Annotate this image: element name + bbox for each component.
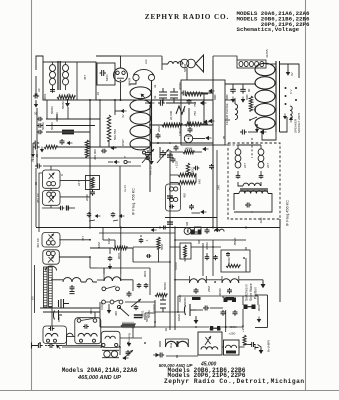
wire y93 to x213	[188, 92, 213, 94]
IF2 trimmer 2	[259, 174, 264, 179]
label speck ab	[127, 352, 131, 356]
models list line 3	[261, 21, 310, 28]
switch circles top	[102, 300, 123, 304]
series cap col b	[167, 196, 173, 198]
svg-text:20M: 20M	[157, 126, 161, 132]
electrolytic cap	[178, 294, 196, 316]
osc loop link	[81, 279, 97, 282]
hairpin resistor 840	[178, 173, 202, 184]
models list line 4	[237, 26, 300, 33]
audio box	[181, 80, 225, 145]
label 105	[31, 155, 35, 160]
svg-text:450: 450	[183, 193, 187, 198]
label OWT	[121, 139, 125, 146]
wire bottom links	[60, 337, 101, 346]
sw coil B	[222, 276, 239, 283]
IF2 primary	[235, 145, 241, 174]
wire P mid links	[170, 247, 203, 259]
svg-text:.1MF: .1MF	[259, 217, 263, 224]
left margin rule	[31, 0, 33, 391]
wire osc bus	[97, 262, 170, 291]
label speck i	[265, 49, 269, 58]
wire V1 bottom bus	[96, 82, 121, 100]
resistor R2	[178, 82, 202, 96]
tuner can B trimmer	[49, 196, 55, 203]
label speck af	[259, 217, 263, 224]
svg-text:6V: 6V	[127, 352, 131, 356]
res vert 300000	[85, 140, 97, 160]
ant cap 2	[48, 343, 55, 348]
cap below y125	[188, 124, 193, 133]
cap I2 2000	[85, 190, 95, 201]
res mid small	[155, 293, 167, 296]
resistor R4	[249, 96, 257, 112]
label speck ah	[157, 126, 161, 132]
svg-text:AF: AF	[37, 88, 41, 92]
svg-text:+125: +125	[175, 161, 179, 168]
field coil core	[279, 61, 281, 132]
ground audio 1	[201, 119, 215, 124]
svg-text:400M: 400M	[227, 257, 231, 265]
wire box1 drops	[47, 99, 101, 148]
svg-text:8MF: 8MF	[225, 94, 229, 100]
cap pair top	[181, 91, 197, 108]
wire y312 left	[43, 308, 100, 312]
wire hairpin left	[170, 175, 178, 183]
wire y247 P	[133, 247, 159, 262]
cap P6	[162, 226, 167, 230]
label speck e	[183, 63, 187, 72]
wire caps to bus	[46, 119, 100, 132]
svg-text:400M: 400M	[218, 288, 222, 296]
svg-text:Position: Position	[254, 287, 258, 299]
label speck a	[96, 91, 100, 96]
bottom right handwritten note	[159, 362, 217, 369]
label P 400	[227, 257, 231, 265]
svg-text:400M: 400M	[183, 254, 187, 262]
ground topright	[286, 64, 291, 76]
cap pair mid	[137, 283, 149, 288]
ant terminal	[32, 343, 37, 349]
cap P2	[146, 254, 151, 258]
svg-text:500M: 500M	[147, 310, 151, 318]
tuner can B	[42, 191, 60, 206]
padder stack 2	[170, 88, 178, 103]
output box right edge	[255, 295, 268, 328]
wire bot can links	[67, 337, 179, 348]
dumbbell resistor 2	[218, 288, 236, 302]
comp I bottom	[195, 227, 202, 234]
label speck j	[41, 122, 45, 130]
bottom right caption models P	[168, 372, 246, 379]
cap C2 left	[33, 88, 41, 99]
svg-text:457: 457	[83, 75, 87, 80]
label 456KC B	[36, 237, 40, 248]
big arrow right	[260, 129, 267, 134]
label speck n	[77, 181, 81, 186]
big cap lower left	[59, 299, 70, 308]
osc coil row A	[63, 278, 81, 283]
big cap left2	[53, 310, 62, 320]
wire top y84	[225, 84, 256, 87]
label 450	[183, 193, 187, 198]
sw big box	[221, 250, 250, 272]
label speck b	[83, 75, 87, 80]
handwritten N mark	[176, 106, 185, 114]
label speck q	[117, 252, 121, 260]
dot P bottom	[127, 311, 197, 344]
svg-text:.05: .05	[222, 135, 226, 140]
wire top O	[178, 296, 258, 305]
wires audio a	[189, 94, 204, 125]
trimmer cap C1	[43, 88, 55, 101]
models list line 2	[236, 16, 310, 23]
cap gnd I2c	[87, 212, 101, 221]
cap y314 a	[221, 310, 226, 316]
IF2 shield dashed	[228, 143, 280, 219]
small gnd arrow ant	[55, 343, 62, 350]
svg-text:IF Freq. 456 KC: IF Freq. 456 KC	[132, 188, 136, 215]
wire x90 down	[89, 100, 91, 180]
gang cap bottom	[123, 350, 133, 359]
res vert P1	[157, 237, 164, 250]
out transformer coil	[201, 347, 218, 350]
label speck y	[114, 311, 118, 316]
label speck x	[147, 310, 151, 318]
bottom left caption models	[62, 367, 138, 374]
svg-text:8MF: 8MF	[213, 94, 217, 100]
res box I2	[86, 176, 100, 190]
RF can B coil	[46, 251, 55, 255]
label speck ai	[193, 111, 197, 116]
wire right col link	[279, 219, 281, 228]
cap bottom O	[158, 353, 164, 358]
ground audio 2	[193, 136, 212, 141]
vertical x213b	[212, 240, 214, 276]
IF2 trimmer 1	[236, 174, 241, 179]
ground arrow N	[107, 304, 112, 314]
svg-text:Long: Long	[127, 333, 131, 340]
label 20	[34, 111, 38, 115]
loop antenna label	[144, 59, 148, 64]
gnd left O	[153, 353, 159, 358]
link loop bottom	[67, 333, 74, 336]
label speck ac	[169, 342, 173, 348]
vertical x175 lower	[174, 228, 176, 330]
svg-text:300M: 300M	[55, 112, 59, 120]
label 400M2	[229, 325, 237, 329]
svg-text:500M: 500M	[163, 282, 167, 290]
wire O links	[178, 296, 258, 332]
cap 8MF b	[240, 87, 249, 100]
bus y208	[42, 206, 75, 211]
svg-text:400M: 400M	[185, 147, 193, 151]
svg-text:456 KC: 456 KC	[36, 237, 40, 248]
wire x103 mid	[103, 228, 115, 249]
resistor R1 50M	[57, 95, 75, 109]
RF can B	[43, 250, 60, 264]
svg-text:465,000 AND UP: 465,000 AND UP	[77, 375, 121, 381]
svg-text:6M: 6M	[197, 239, 201, 244]
svg-text:B+(AMP): B+(AMP)	[267, 340, 271, 352]
bottom rule	[0, 390, 339, 392]
wire audio feed	[225, 100, 233, 120]
wire 10M	[90, 248, 133, 262]
osc switch circles	[102, 286, 120, 291]
left coil O	[166, 339, 189, 347]
svg-text:500M: 500M	[50, 122, 54, 130]
svg-text:ZEPHYR RADIO CO.: ZEPHYR RADIO CO.	[145, 13, 229, 21]
IF2 top wire	[238, 144, 261, 146]
IF2 secondary	[258, 145, 264, 174]
cap 500M c	[37, 122, 54, 134]
cap mid right	[240, 130, 258, 135]
svg-text:SOCKET 20P6: SOCKET 20P6	[297, 113, 301, 133]
left rail lower	[35, 215, 40, 313]
cap O right	[247, 342, 256, 347]
tube V1 envelope	[114, 68, 128, 82]
cap C4	[182, 99, 192, 113]
series cap col a	[167, 155, 173, 157]
svg-text:380: 380	[114, 311, 118, 316]
label P 500M	[183, 297, 187, 305]
IF freq label right	[286, 200, 290, 226]
svg-text:SPKR: SPKR	[183, 63, 187, 72]
tuner can leads	[51, 181, 90, 197]
vertical x213	[212, 60, 214, 228]
svg-text:4V: 4V	[121, 114, 125, 118]
svg-text:Dial: Dial	[169, 342, 173, 348]
bus y240	[175, 239, 232, 241]
label speck l	[34, 181, 38, 186]
gnd P1	[108, 264, 112, 270]
svg-text:6,000: 6,000	[152, 304, 156, 312]
cap 500M b	[37, 114, 59, 128]
cap on y143 b	[169, 145, 179, 156]
cap .05 left	[33, 145, 40, 159]
dome coil	[46, 266, 57, 271]
tuner can A	[42, 170, 60, 188]
label speck o	[97, 242, 101, 248]
svg-text:2000: 2000	[85, 194, 89, 201]
bottom can B coil	[78, 333, 97, 342]
choke small	[290, 106, 292, 119]
cap +125	[171, 157, 179, 168]
bottom can A	[43, 326, 67, 344]
arrow right mid	[283, 114, 293, 123]
label 6V	[289, 89, 293, 94]
gnd I2b	[108, 160, 120, 164]
bottom can A cap	[49, 326, 55, 331]
bus y158	[41, 157, 148, 159]
sw box innards	[226, 252, 245, 268]
AF transformer leads	[234, 182, 272, 212]
dark cap N	[134, 314, 149, 322]
coil can I cap	[169, 205, 174, 209]
wire speaker top feed	[121, 56, 163, 60]
tuner can A trimmer	[49, 173, 55, 180]
bus y143	[150, 142, 213, 144]
ground under caps	[231, 97, 246, 103]
wire left col down	[35, 168, 37, 227]
vertical x280 lower	[279, 219, 281, 302]
wire y56 right	[213, 56, 237, 60]
label 456KC A	[36, 192, 40, 203]
label speck v	[233, 237, 237, 246]
series cap col c	[167, 222, 173, 224]
svg-text:400M: 400M	[205, 242, 209, 250]
svg-text:.05: .05	[182, 108, 186, 113]
label speck u	[197, 239, 201, 244]
hatched resistor strip	[44, 267, 53, 307]
out transformer trimmer	[205, 336, 211, 345]
bus y327	[155, 326, 243, 328]
dumbbell resistor 40M	[210, 326, 221, 331]
coil can I	[166, 184, 181, 211]
loop antenna winding	[130, 81, 152, 152]
sw caps	[194, 288, 233, 294]
bus y233	[99, 232, 175, 234]
svg-text:500M: 500M	[183, 297, 187, 305]
label K6	[31, 296, 35, 300]
svg-text:25M: 25M	[207, 286, 211, 292]
IF2 labels	[243, 163, 270, 168]
res vert MEG	[186, 163, 194, 174]
cap 8MF a	[225, 87, 236, 100]
RF can A coil	[46, 241, 55, 245]
speaker horn	[196, 55, 204, 72]
svg-text:.1: .1	[145, 239, 149, 242]
dot P a	[169, 239, 214, 281]
svg-text:.0001: .0001	[257, 304, 261, 312]
AF transformer core	[240, 189, 268, 191]
svg-text:Ant 13: Ant 13	[149, 166, 153, 175]
svg-text:1MEG: 1MEG	[178, 127, 182, 136]
svg-text:.0001: .0001	[89, 307, 93, 315]
field coil L2	[255, 61, 276, 132]
svg-text:.02: .02	[164, 327, 168, 332]
resistor ladder vertical	[107, 115, 117, 141]
bottom can A coil	[46, 333, 58, 342]
label 3+13	[123, 185, 127, 192]
cap C13	[245, 203, 253, 213]
wire spk left	[162, 58, 168, 70]
label speck ae	[207, 286, 211, 292]
left rail x37	[36, 108, 38, 143]
tube V1 elements	[116, 71, 125, 81]
svg-text:.0001: .0001	[143, 270, 147, 278]
vert x217	[216, 150, 218, 230]
bottom right caption company	[164, 378, 305, 385]
svg-text:267: 267	[77, 181, 81, 186]
speaker coupling coil	[168, 62, 183, 65]
coil O feed wires	[166, 339, 189, 358]
vertical x203	[202, 243, 204, 276]
junction dot O	[225, 326, 227, 328]
bus y125	[150, 124, 213, 126]
mid can C coil	[105, 336, 115, 339]
cap gnd I	[189, 204, 207, 214]
wire bottom extra b	[120, 327, 133, 355]
cap on y143 a	[156, 133, 161, 144]
wire top left loop	[36, 56, 43, 70]
wire V1 top	[96, 56, 121, 68]
label P 02	[164, 327, 168, 332]
label speck s	[163, 282, 167, 290]
junction dot sw	[206, 280, 222, 283]
cap mid pair	[194, 166, 200, 171]
bottom bus y345	[56, 346, 101, 348]
arrow at loop	[139, 92, 146, 99]
wire osc top link	[90, 268, 104, 274]
svg-text:MFD: MFD	[105, 74, 109, 81]
svg-text:Short Wave: Short Wave	[249, 283, 253, 301]
junction dots bottom	[39, 342, 146, 348]
svg-text:+250: +250	[229, 332, 236, 336]
svg-text:Zephyr Radio Co.,Detroit,Michi: Zephyr Radio Co.,Detroit,Michigan	[164, 378, 305, 385]
svg-text:.02MF: .02MF	[177, 313, 181, 322]
filter choke label	[225, 103, 229, 125]
svg-text:FILTER CHOKE: FILTER CHOKE	[225, 103, 229, 125]
svg-text:SPKR: SPKR	[128, 77, 132, 86]
sw left box	[180, 243, 191, 259]
svg-text:.05MF: .05MF	[233, 237, 237, 246]
wire box2-V1	[114, 74, 116, 76]
label speck c	[121, 114, 125, 118]
RF can B trimmer	[48, 256, 54, 263]
svg-text:10M: 10M	[97, 242, 101, 248]
wire field top right	[280, 64, 300, 78]
label speck m	[60, 174, 64, 176]
right can O coil	[226, 345, 237, 348]
label speck aa	[89, 307, 93, 315]
resistor R5	[44, 145, 57, 149]
svg-text:IF Freq.456 KC: IF Freq.456 KC	[286, 200, 290, 226]
svg-text:750: 750	[193, 102, 197, 107]
coil sw top	[215, 229, 225, 231]
right margin rule	[305, 0, 307, 391]
wire tuner can stub	[50, 166, 52, 208]
ground below R1	[65, 99, 70, 107]
vertical x150	[149, 105, 151, 192]
label Long	[127, 333, 131, 340]
cap P3	[108, 248, 113, 261]
vibrator unit	[102, 350, 119, 357]
svg-text:20,000: 20,000	[169, 110, 173, 120]
svg-text:+250: +250	[241, 325, 245, 332]
label speck h	[247, 88, 251, 92]
label speck d	[153, 84, 157, 88]
switch S1	[249, 117, 259, 132]
label plus250	[229, 332, 236, 336]
label 400M	[205, 242, 209, 250]
svg-text:.0001: .0001	[117, 252, 121, 260]
cap .0001 left	[31, 158, 42, 168]
label speck aj	[145, 239, 149, 242]
arrow mid	[115, 109, 127, 113]
svg-text:6,000: 6,000	[174, 262, 178, 270]
wire spk coil right	[164, 63, 183, 65]
resistor N	[121, 323, 135, 327]
junction dots bus y227	[89, 227, 247, 229]
svg-text:105: 105	[31, 155, 35, 160]
wire bottom extra c	[145, 313, 155, 320]
ground y125 right	[203, 120, 210, 125]
ground right R2	[202, 89, 215, 94]
svg-text:50M: 50M	[160, 244, 164, 250]
box N edges	[100, 300, 155, 327]
label 6000b	[100, 302, 104, 310]
